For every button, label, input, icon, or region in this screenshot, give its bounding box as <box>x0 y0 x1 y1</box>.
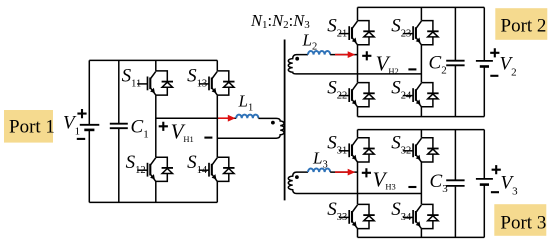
switch S23: IGBT with antiparallel diode <box>403 21 439 45</box>
svg-text:VH1: VH1 <box>171 120 194 144</box>
polarity dot winding N3 <box>295 175 299 179</box>
VH3 minus sign <box>408 186 416 188</box>
svg-text:S24: S24 <box>391 77 412 101</box>
svg-text:S31: S31 <box>327 133 347 157</box>
battery V1 <box>80 60 100 202</box>
wire: port 3 bottom rail <box>358 236 485 238</box>
V1 plus sign <box>77 109 86 118</box>
svg-text:Port 2: Port 2 <box>501 16 547 37</box>
red current direction arrow at port 1 primary <box>218 115 235 122</box>
wire: port 1 top rail <box>89 59 217 61</box>
svg-text:C2: C2 <box>429 53 447 77</box>
svg-text:N1:N2:N3: N1:N2:N3 <box>250 11 310 31</box>
V1 minus sign <box>77 138 85 140</box>
svg-text:V1: V1 <box>63 113 80 138</box>
wire: port 2 bottom rail <box>358 116 485 118</box>
wire: port 1 left leg (segments between switches) <box>155 60 157 202</box>
VH2 plus sign <box>362 51 371 60</box>
VH2 minus sign <box>408 68 416 70</box>
wire: L3 to port 3 left leg <box>330 171 357 173</box>
switch S32: IGBT with antiparallel diode <box>403 138 439 162</box>
switch S34: IGBT with antiparallel diode <box>403 204 439 228</box>
battery V3 <box>476 130 493 238</box>
V3 minus sign <box>491 191 499 193</box>
VH1 plus sign <box>159 122 168 131</box>
wire: VH1 node, left leg midpoint to L1 (crosses right leg) <box>156 117 236 119</box>
svg-text:V2: V2 <box>500 54 517 79</box>
wire: L2 to port 2 left leg <box>330 54 357 56</box>
wire: port 2 top rail <box>358 6 485 8</box>
Port 1 label box <box>4 110 55 143</box>
wire: port 2 left leg (segments between switches) <box>357 7 359 116</box>
switch S31: IGBT with antiparallel diode <box>339 138 375 162</box>
svg-text:VH3: VH3 <box>373 167 396 191</box>
svg-text:L1: L1 <box>238 92 254 114</box>
svg-text:S14: S14 <box>187 152 208 176</box>
svg-text:S12: S12 <box>126 152 146 176</box>
svg-text:S23: S23 <box>391 15 411 39</box>
transformer winding N3 (humps face left) + wire to VH3- (right leg) <box>288 172 421 193</box>
switch S33: IGBT with antiparallel diode <box>339 204 375 228</box>
svg-text:S32: S32 <box>391 133 411 157</box>
capacitor C3 <box>446 130 464 238</box>
svg-text:Port 1: Port 1 <box>9 117 55 138</box>
transformer winding N2 (humps face left) + wire to VH2- (right leg) <box>288 55 421 74</box>
switch S13: IGBT with antiparallel diode <box>199 71 235 95</box>
svg-text:VH2: VH2 <box>376 52 399 76</box>
svg-text:S11: S11 <box>122 66 142 90</box>
VH3 plus sign <box>362 168 371 177</box>
inductor L3 (blue) <box>308 169 330 173</box>
wire: port 1 right leg (segments between switches) <box>216 60 218 202</box>
svg-text:L3: L3 <box>312 149 328 171</box>
red current direction arrow at port 3 input <box>335 169 355 176</box>
svg-text:C3: C3 <box>430 171 449 195</box>
V2 plus sign <box>490 48 499 57</box>
wire + transformer winding N1 (primary, humps face right) <box>217 118 284 138</box>
svg-text:S22: S22 <box>327 77 347 101</box>
capacitor C1 <box>110 60 128 202</box>
Port 2 label box <box>495 8 547 40</box>
inductor L1 (blue) <box>236 115 258 119</box>
wire: port 3 right leg (segments between switches) <box>420 130 422 238</box>
svg-text:S34: S34 <box>391 199 412 223</box>
switch S11: IGBT with antiparallel diode <box>137 71 173 95</box>
svg-text:S13: S13 <box>187 66 207 90</box>
wire: port 3 left leg (segments between switches) <box>357 130 359 238</box>
Port 3 label box <box>494 204 546 236</box>
switch S14: IGBT with antiparallel diode <box>199 157 235 181</box>
wire: port 1 bottom rail <box>89 201 217 203</box>
switch S22: IGBT with antiparallel diode <box>339 83 375 107</box>
V2 minus sign <box>490 75 498 77</box>
svg-text:V3: V3 <box>501 173 519 198</box>
switch S12: IGBT with antiparallel diode <box>137 157 173 181</box>
wire: port 2 right leg (segments between switches) <box>420 7 422 116</box>
svg-text:C1: C1 <box>131 117 149 141</box>
transformer core <box>284 40 286 201</box>
switch S24: IGBT with antiparallel diode <box>403 83 439 107</box>
battery V2 <box>476 7 493 116</box>
polarity dot winding N1 <box>271 121 275 125</box>
svg-text:S21: S21 <box>327 15 347 39</box>
wire: port 3 top rail <box>358 129 485 131</box>
V3 plus sign <box>492 165 501 174</box>
polarity dot winding N2 <box>295 57 299 61</box>
red current direction arrow at port 2 input <box>335 51 355 58</box>
capacitor C2 <box>446 7 464 116</box>
inductor L2 (blue) <box>308 51 330 55</box>
svg-text:L2: L2 <box>302 31 318 53</box>
VH1 minus sign <box>204 137 212 139</box>
svg-text:S33: S33 <box>327 199 347 223</box>
switch S21: IGBT with antiparallel diode <box>339 21 375 45</box>
svg-text:Port 3: Port 3 <box>500 213 546 234</box>
